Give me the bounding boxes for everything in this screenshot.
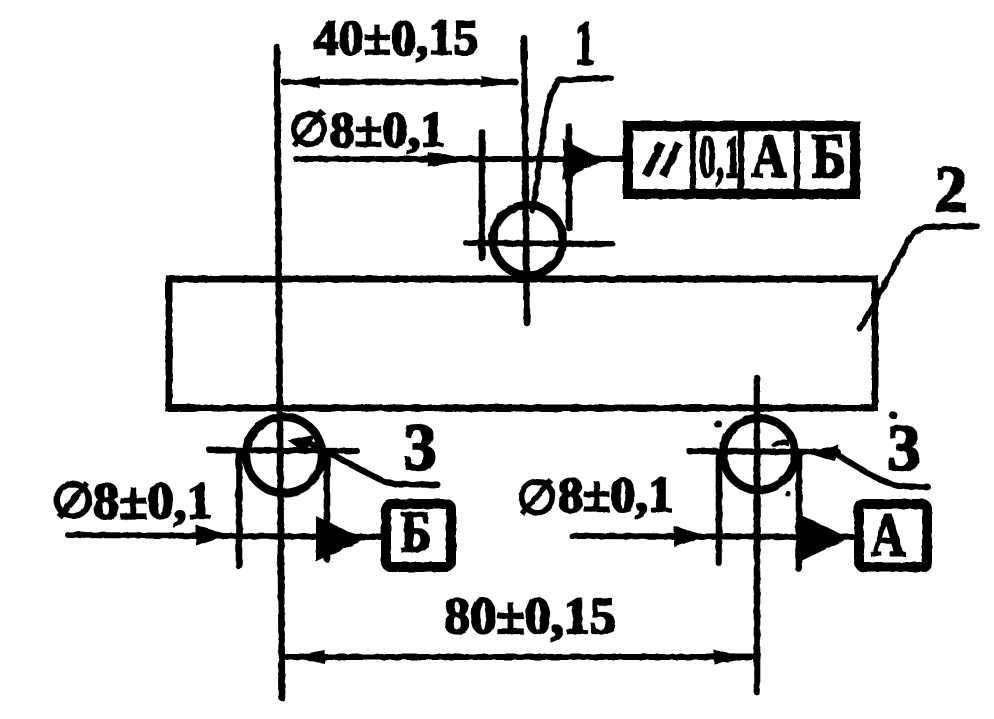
svg-text:А: А — [871, 502, 905, 568]
svg-text:8±0,1: 8±0,1 — [93, 473, 213, 530]
svg-text:Б: Б — [401, 499, 431, 564]
svg-text:А: А — [752, 123, 787, 189]
svg-text:0,1: 0,1 — [699, 124, 741, 190]
svg-text:2: 2 — [935, 153, 968, 226]
svg-text:Б: Б — [812, 123, 846, 191]
svg-text:3: 3 — [888, 412, 921, 485]
svg-text:80±0,15: 80±0,15 — [444, 588, 616, 645]
svg-text:40±0,15: 40±0,15 — [314, 9, 479, 65]
svg-text:3: 3 — [404, 411, 437, 484]
svg-text:8±0,1: 8±0,1 — [330, 101, 445, 157]
svg-text:1: 1 — [575, 10, 595, 78]
svg-text:8±0,1: 8±0,1 — [558, 466, 673, 522]
